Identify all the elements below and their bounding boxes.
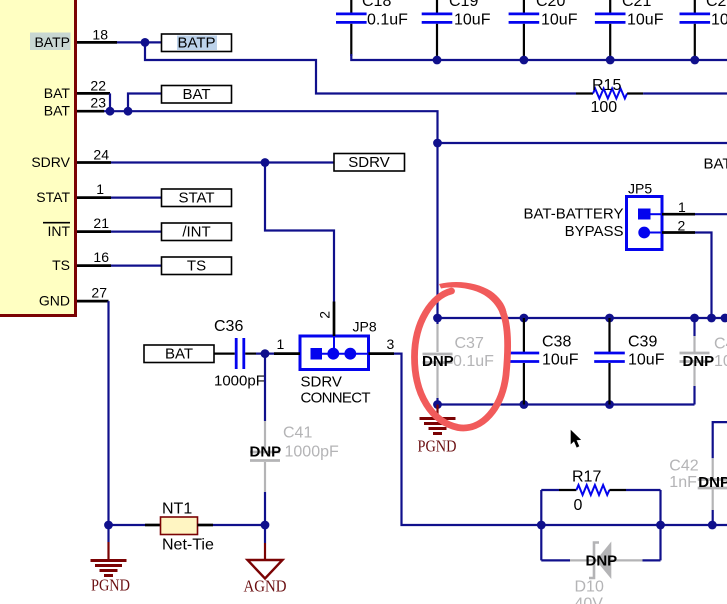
- svg-text:BYPASS: BYPASS: [565, 223, 624, 240]
- pin BAT 22: [44, 78, 110, 101]
- svg-text:GND: GND: [39, 293, 70, 309]
- node bus C21: [606, 56, 615, 65]
- svg-text:10uF: 10uF: [454, 12, 491, 29]
- annotation red ellipse: [415, 282, 508, 428]
- svg-text:BAT: BAT: [182, 86, 210, 103]
- wire GND down to net-tie row: [107, 301, 109, 525]
- svg-text:0.1uF: 0.1uF: [453, 353, 494, 370]
- wire JP8 pin3 down to bottom run: [394, 354, 727, 525]
- connector JP5: [627, 181, 696, 250]
- svg-text:C36: C36: [214, 318, 243, 335]
- svg-text:C18: C18: [362, 0, 391, 10]
- svg-text:C19: C19: [449, 0, 478, 10]
- capacitor C22 (clipped): [680, 0, 727, 56]
- text BAT-BATTERY BYPASS: [523, 205, 623, 240]
- pin TS 16: [52, 249, 111, 273]
- node top bus JP5 pin2: [707, 314, 716, 323]
- wire JP5 pin1 to right edge: [695, 213, 727, 215]
- svg-text:SDRV: SDRV: [301, 373, 342, 390]
- svg-text:TS: TS: [52, 257, 70, 273]
- net label STAT: [162, 189, 232, 207]
- net label BAT (C36 row): [144, 345, 214, 363]
- node BAT junction B: [124, 107, 133, 116]
- ground PGND (left): [91, 525, 131, 595]
- svg-text:1: 1: [277, 336, 285, 352]
- svg-text:C4: C4: [714, 336, 727, 353]
- capacitor C18: [336, 0, 408, 56]
- svg-text:C42: C42: [669, 458, 698, 475]
- svg-text:BAT: BAT: [44, 85, 71, 101]
- node C36 junction: [261, 349, 270, 358]
- text SDRV CONNECT: [301, 373, 371, 406]
- node bottom bus C39: [605, 400, 614, 409]
- net name BAT (right edge): [704, 156, 727, 173]
- capacitor C37 (DNP) top stub: [436, 318, 438, 324]
- svg-text:BAT: BAT: [44, 103, 71, 119]
- node BATP junction: [141, 38, 150, 47]
- node bus C19: [433, 56, 442, 65]
- svg-text:CONNECT: CONNECT: [301, 389, 371, 406]
- svg-text:C37: C37: [455, 335, 484, 352]
- svg-text:JP5: JP5: [628, 181, 652, 197]
- net label BAT: [162, 86, 232, 104]
- pin GND 27: [39, 285, 109, 309]
- capacitor C40 (DNP, clipped): [680, 318, 727, 405]
- ground AGND: [244, 525, 287, 596]
- node top bus right: [721, 314, 727, 323]
- svg-text:27: 27: [91, 285, 107, 301]
- wire C36 to JP8: [256, 353, 274, 355]
- svg-text:40V: 40V: [575, 595, 604, 604]
- svg-text:BATP: BATP: [177, 34, 215, 51]
- capacitor C41 (DNP): [250, 354, 339, 525]
- svg-text:10uF: 10uF: [628, 352, 665, 369]
- node top bus C37: [433, 314, 442, 323]
- pin STAT 1: [36, 181, 111, 205]
- wire BAT branch to right edge: [438, 142, 727, 144]
- svg-text:C38: C38: [542, 334, 571, 351]
- svg-text:2: 2: [678, 217, 686, 233]
- svg-text:2: 2: [317, 311, 333, 319]
- svg-text:10: 10: [711, 12, 727, 29]
- net label SDRV: [334, 154, 405, 172]
- mouse cursor: [571, 430, 581, 448]
- capacitor C19: [422, 0, 491, 56]
- svg-text:24: 24: [93, 147, 109, 163]
- svg-text:C2: C2: [706, 0, 727, 10]
- node top bus C40: [690, 314, 699, 323]
- net label BATP: [162, 34, 232, 52]
- svg-text:BAT: BAT: [165, 345, 193, 362]
- wire BATP to R15 row: [145, 42, 576, 93]
- svg-text:INT: INT: [47, 223, 70, 239]
- pin SDRV 24: [31, 147, 111, 170]
- svg-text:3: 3: [387, 336, 395, 352]
- pin BATP 18: [30, 26, 117, 50]
- svg-text:D10: D10: [575, 578, 604, 595]
- node NT1 right: [261, 521, 270, 530]
- svg-text:1: 1: [678, 199, 686, 215]
- capacitor C20: [509, 0, 578, 56]
- svg-text:C39: C39: [628, 334, 657, 351]
- svg-text:0: 0: [574, 497, 583, 514]
- node bus C22: [690, 56, 699, 65]
- svg-text:BAT: BAT: [704, 156, 727, 173]
- wire INT pin to label: [111, 231, 162, 233]
- svg-text:TS: TS: [187, 257, 206, 274]
- net label TS: [162, 257, 232, 275]
- wire SDRV pin to label: [111, 161, 334, 163]
- svg-text:16: 16: [93, 249, 109, 265]
- svg-text:23: 23: [90, 95, 106, 111]
- svg-text:SDRV: SDRV: [31, 154, 70, 170]
- node SDRV junction: [261, 158, 270, 167]
- svg-text:22: 22: [90, 78, 106, 94]
- wire STAT pin to label: [111, 197, 162, 199]
- node BAT junction A: [106, 107, 115, 116]
- IC block U1: [0, 0, 77, 317]
- svg-text:10: 10: [714, 353, 727, 370]
- capacitor C36: [214, 318, 265, 390]
- svg-text:PGND: PGND: [418, 437, 457, 456]
- svg-text:AGND: AGND: [244, 577, 287, 596]
- capacitor C42 (DNP): [669, 422, 727, 525]
- node bottom run left: [537, 521, 546, 530]
- svg-text:1nF: 1nF: [669, 474, 697, 491]
- resistor R17: [541, 469, 660, 561]
- svg-text:BAT-BATTERY: BAT-BATTERY: [523, 205, 623, 222]
- svg-text:21: 21: [93, 215, 109, 231]
- node NT1 left: [104, 521, 113, 530]
- svg-text:JP8: JP8: [353, 319, 377, 335]
- wire top bus C37 row: [438, 317, 727, 319]
- capacitor C21: [595, 0, 664, 56]
- node top bus C38: [520, 314, 529, 323]
- wire pin23 short: [104, 110, 128, 112]
- wire R15 to right edge: [643, 92, 727, 94]
- svg-text:18: 18: [92, 26, 108, 42]
- svg-text:NT1: NT1: [162, 501, 192, 518]
- ground PGND (C37): [418, 405, 457, 456]
- svg-text:DNP: DNP: [698, 474, 727, 491]
- node bottom bus C38: [520, 400, 529, 409]
- svg-text:10uF: 10uF: [541, 12, 578, 29]
- svg-text:SDRV: SDRV: [348, 154, 389, 171]
- resistor R15: [576, 77, 643, 116]
- svg-text:0.1uF: 0.1uF: [367, 12, 408, 29]
- wire TS pin to label: [111, 265, 162, 267]
- node bottom run right: [656, 521, 665, 530]
- svg-text:100: 100: [591, 99, 618, 116]
- svg-text:C21: C21: [622, 0, 651, 10]
- svg-text:DNP: DNP: [422, 353, 454, 370]
- svg-text:STAT: STAT: [178, 189, 214, 206]
- svg-text:10uF: 10uF: [627, 12, 664, 29]
- diode D10 (DNP): [541, 542, 660, 604]
- node bus C20: [520, 56, 529, 65]
- node bottom run C42: [708, 521, 717, 530]
- wire pin22 corner down: [109, 93, 111, 111]
- capacitor C38: [509, 318, 579, 405]
- svg-text:C20: C20: [536, 0, 565, 10]
- svg-text:STAT: STAT: [36, 189, 70, 205]
- svg-text:1: 1: [96, 181, 104, 197]
- wire BAT main run to right: [128, 111, 438, 318]
- net-tie NT1: [109, 501, 266, 554]
- capacitor C37 (DNP): [422, 324, 494, 405]
- svg-text:DNP: DNP: [586, 553, 618, 570]
- svg-text:C41: C41: [283, 425, 312, 442]
- node top bus C39: [605, 314, 614, 323]
- svg-text:10uF: 10uF: [542, 352, 579, 369]
- svg-text:R17: R17: [572, 469, 601, 486]
- pin BAT 23: [44, 95, 106, 119]
- pin INT 21 (active low, overline): [43, 215, 111, 239]
- net label /INT: [162, 223, 232, 241]
- wire BAT to label: [128, 94, 162, 112]
- svg-text:PGND: PGND: [91, 576, 130, 595]
- wire JP5 pin2 down to bus: [695, 233, 712, 319]
- svg-text:1000pF: 1000pF: [285, 444, 339, 461]
- svg-text:BATP: BATP: [34, 34, 70, 50]
- capacitor C39: [594, 318, 664, 405]
- connector JP8: [274, 302, 395, 370]
- node BAT branch: [433, 139, 442, 148]
- svg-text:R15: R15: [592, 77, 621, 94]
- svg-text:1000pF: 1000pF: [214, 373, 265, 390]
- wire capacitor bus: [351, 54, 727, 60]
- svg-text:/INT: /INT: [182, 223, 210, 240]
- svg-text:DNP: DNP: [683, 353, 715, 370]
- wire BATP pin to label: [117, 41, 162, 43]
- svg-text:DNP: DNP: [250, 444, 282, 461]
- svg-text:Net-Tie: Net-Tie: [162, 537, 214, 554]
- wire SDRV to JP8 pin2: [265, 163, 334, 302]
- wire bottom bus C37 row: [438, 403, 695, 405]
- node bottom bus C37: [433, 400, 442, 409]
